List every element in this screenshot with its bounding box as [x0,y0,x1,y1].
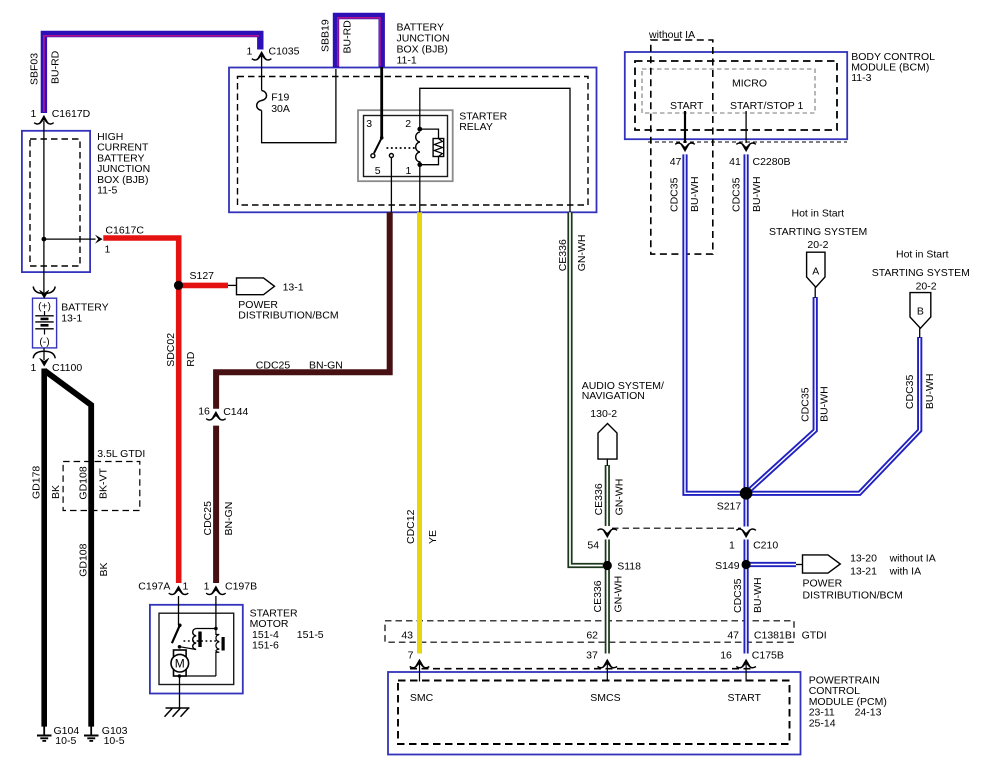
svg-text:BU-WH: BU-WH [689,176,701,212]
connector A STARTING SYSTEM [807,252,825,287]
svg-text:BU-WH: BU-WH [752,577,764,613]
svg-text:STARTING SYSTEM: STARTING SYSTEM [872,267,970,279]
svg-text:GTDI: GTDI [802,630,827,642]
svg-text:START: START [728,692,762,704]
connector C210 arrow [736,529,756,537]
svg-text:BK: BK [50,485,62,499]
svg-text:DISTRIBUTION/BCM: DISTRIBUTION/BCM [803,590,903,602]
wire pin7 arrow lead into PCM [419,664,421,682]
wire CDC12 YE from relay coil to PCM pin 7 [417,212,422,653]
svg-text:CE336: CE336 [557,239,569,271]
wire relay pin 1 to BJB bottom (to CDC12) [419,165,421,213]
connector C1617D [34,116,54,124]
svg-text:without IA: without IA [648,29,695,41]
svg-text:C197A: C197A [138,581,170,593]
svg-text:CE336: CE336 [593,483,605,515]
svg-text:13-1: 13-1 [283,282,304,294]
connector battery positive [33,287,55,299]
svg-text:CDC25: CDC25 [256,360,291,372]
relay coil [416,127,423,167]
svg-text:GD108: GD108 [77,466,89,499]
relay mechanical dotted link [387,147,416,149]
starter motor dotted link [184,640,220,642]
powertrain control module box [388,672,801,755]
wire C197B lead into starter motor [215,596,217,629]
svg-text:BU-WH: BU-WH [819,386,831,422]
svg-text:GN-WH: GN-WH [576,235,588,272]
svg-text:Hot in Start: Hot in Start [896,249,949,261]
svg-text:BU-RD: BU-RD [342,20,354,54]
svg-text:13-20: 13-20 [850,552,877,564]
node junction in HCBJB [42,237,47,242]
wire C197A lead into starter motor [178,596,180,625]
wire C1617C SDC02 RD from HCBJB to C197A [103,238,178,583]
GTDI option dashed band C1381B [385,621,794,642]
wire pin37 arrow lead into PCM [606,664,608,682]
svg-text:54: 54 [587,539,599,551]
relay pin 5 terminal [389,154,393,158]
svg-text:STARTING SYSTEM: STARTING SYSTEM [769,226,867,238]
splice S118 [603,561,612,570]
wire relay pin 5 to BJB bottom [390,158,392,213]
ground G104 [37,726,52,741]
svg-text:CDC35: CDC35 [904,375,916,410]
svg-text:10-5: 10-5 [55,735,76,747]
3.5L GTDI option dashed box [63,462,140,511]
starter pull-in coil [193,629,202,650]
svg-text:3: 3 [366,118,372,130]
svg-text:BU-RD: BU-RD [50,50,62,84]
svg-text:SBB19: SBB19 [320,19,332,52]
svg-text:1: 1 [31,108,37,120]
dashed option line below BCM (with IA) [648,141,847,143]
svg-text:S118: S118 [617,560,641,572]
svg-text:C1617C: C1617C [105,225,144,237]
svg-text:SMCS: SMCS [590,692,620,704]
svg-text:1: 1 [247,46,253,58]
svg-text:47: 47 [727,630,739,642]
svg-text:151-6: 151-6 [252,640,279,652]
svg-text:1: 1 [30,362,36,374]
connector C144 [206,412,226,420]
svg-text:(+): (+) [38,302,51,313]
svg-text:CE336: CE336 [592,580,604,612]
connector C197A [169,586,189,594]
svg-text:C1035: C1035 [269,46,300,58]
connector to power distribution 13-1 (S127) [237,278,275,295]
svg-text:11-5: 11-5 [97,185,117,197]
wire SBB19 BU-RD hook on top of BJB [336,16,382,68]
svg-text:41: 41 [729,156,741,168]
wire motor to chassis ground [179,676,181,708]
svg-text:SDC02: SDC02 [165,333,177,367]
svg-text:BN-GN: BN-GN [223,502,235,536]
svg-text:A: A [812,266,819,278]
connector C2280B pin 47 arrow [675,143,695,151]
svg-text:13-21: 13-21 [850,565,877,577]
svg-text:S127: S127 [190,270,215,282]
battery junction box outline 11-1 [229,68,597,213]
wire pin16 arrow lead into PCM [745,664,747,682]
wire CE336 GN-WH from audio connector to S118 [605,465,610,566]
svg-text:YE: YE [427,530,439,544]
svg-text:11-3: 11-3 [851,72,871,84]
starter motor switch [172,624,182,649]
svg-text:CDC25: CDC25 [202,501,214,536]
connector AUDIO SYSTEM/NAVIGATION 130-2 [598,424,617,460]
wire BCM START/STOP 1 pin lead [745,111,747,143]
svg-text:C1100: C1100 [52,362,82,374]
wire pull-in coil to motor terminal [180,647,196,650]
svg-text:M: M [175,657,185,671]
starter motor bottom rail [180,675,216,677]
splice S127 [174,281,183,290]
ground G103 [84,726,99,741]
chassis ground symbol [165,708,190,717]
wire stub S149 to power distribution connector [750,562,803,567]
fuse F19 element [257,91,267,111]
svg-text:(-): (-) [39,337,49,348]
svg-text:BU-WH: BU-WH [924,374,936,410]
starter solenoid top rail [196,628,216,630]
wire relay pin 2 riser and top link to CE336 exit [420,88,570,212]
svg-text:130-2: 130-2 [590,408,617,420]
svg-text:151-5: 151-5 [297,629,324,641]
svg-text:5: 5 [375,165,381,177]
relay resistor [420,129,444,165]
svg-text:7: 7 [408,649,414,661]
starter motor box [150,605,243,694]
relay switch arm [371,136,384,158]
motor M [171,650,189,678]
wire BCM START pin lead [684,111,686,143]
svg-text:MOTOR: MOTOR [250,618,289,630]
splice S149 [742,560,751,569]
svg-text:BK-VT: BK-VT [98,467,110,499]
svg-text:24-13: 24-13 [855,707,882,719]
svg-text:C2280B: C2280B [753,156,791,168]
svg-text:GD178: GD178 [31,466,43,499]
dashed option line at C210/S118 level [612,527,741,529]
svg-text:10-5: 10-5 [104,735,125,747]
wire CDC35 BU-WH C210 to S149 to PCM pin 16 [743,540,748,654]
wire C1617D lead through HCBJB to battery [43,121,45,293]
svg-text:3.5L GTDI: 3.5L GTDI [97,448,145,460]
svg-text:GD108: GD108 [78,543,90,576]
wire SBF03 BU-RD from C1617D to C1035 [44,34,260,113]
body control module box 11-3 [625,52,847,139]
svg-text:SBF03: SBF03 [28,53,40,85]
C175B dashed connector line above PCM [410,668,754,670]
battery box 13-1 [33,298,57,348]
wire stub S127 to power distribution [180,283,228,289]
svg-text:62: 62 [586,630,598,642]
svg-text:POWER: POWER [803,578,843,590]
connector battery negative / C1100 [33,348,55,366]
without IA option dashed box [651,40,713,254]
svg-text:2: 2 [405,118,411,130]
svg-text:11-1: 11-1 [397,54,417,66]
svg-text:C144: C144 [223,406,248,418]
svg-text:C1617D: C1617D [52,108,91,120]
svg-text:43: 43 [401,630,413,642]
svg-text:GN-WH: GN-WH [613,479,625,516]
svg-text:CDC12: CDC12 [405,509,417,544]
svg-text:1: 1 [204,581,210,593]
svg-text:S149: S149 [715,560,740,572]
connector C1035 [252,52,272,60]
svg-text:C1381B: C1381B [754,630,792,642]
svg-text:30A: 30A [271,103,290,115]
svg-text:16: 16 [198,406,210,418]
wire C1035 lead to fuse F19 [261,56,263,91]
svg-text:1: 1 [406,165,412,177]
svg-text:25-14: 25-14 [809,717,836,729]
svg-text:1: 1 [729,539,735,551]
svg-text:47: 47 [670,156,682,168]
wire CDC35 BU-WH pin 47 BCM to S217 [685,154,746,493]
svg-text:1: 1 [183,581,189,593]
svg-text:START: START [670,100,704,112]
svg-text:Hot in Start: Hot in Start [792,207,845,219]
svg-text:CDC35: CDC35 [730,177,742,212]
svg-text:START/STOP 1: START/STOP 1 [730,100,803,112]
wire junction to C1617C arrow [44,238,96,240]
connector C175B pin 16 arrow [736,659,756,667]
svg-text:20-2: 20-2 [807,239,828,251]
connector C175B pin 37 arrow [598,659,618,667]
connector C2280B pin 41 arrow [736,143,756,151]
wire CDC25 BN-GN from BJB to C144 [216,212,390,408]
svg-text:1: 1 [105,244,111,256]
wire connector B lead [919,328,921,338]
svg-text:C210: C210 [753,539,778,551]
svg-text:CDC35: CDC35 [732,578,744,613]
connector to power distribution 13-20/13-21 (S149) [803,555,841,573]
connector C175B pin 7 arrow [410,659,430,667]
wire CDC35 BU-WH from connector B to S217 [746,337,920,493]
wire CDC35 BU-WH pin 41 BCM to S217 to C210 [743,154,748,526]
wire GD178 BK battery negative to G104 [41,369,47,727]
svg-text:BU-WH: BU-WH [751,176,763,212]
svg-text:with IA: with IA [889,565,922,577]
arrowhead C1617C pointing right [95,235,103,244]
battery cell symbol [35,311,53,335]
splice S217 [740,487,753,500]
wire fuse to SBB19 leg [262,69,336,143]
svg-text:RELAY: RELAY [459,121,493,133]
svg-text:without IA: without IA [889,552,936,564]
wire audio connector lead [606,459,608,466]
svg-text:C175B: C175B [752,649,784,661]
high current battery junction box outline 11-5 [22,131,90,272]
svg-text:CDC35: CDC35 [799,387,811,422]
wire CE336 GN-WH from S118 to PCM pin 37 [605,566,610,654]
connector B STARTING SYSTEM [910,293,931,329]
svg-text:CDC35: CDC35 [668,177,680,212]
svg-text:BK: BK [98,562,110,576]
wire CDC35 BU-WH from connector A to S217 [746,297,815,493]
svg-text:16: 16 [720,649,732,661]
wire connector A lead [814,287,816,298]
svg-text:S217: S217 [717,500,742,512]
svg-text:SMC: SMC [410,692,434,704]
svg-text:C197B: C197B [225,581,257,593]
svg-text:BN-GN: BN-GN [309,360,343,372]
svg-text:37: 37 [586,649,598,661]
connector audio pin 54 arrow [598,529,618,537]
wire relay pin 3 feed (from BU-RD) [380,67,383,138]
svg-text:GN-WH: GN-WH [613,576,625,613]
wire CDC25 BN-GN from C144 to C197B [213,426,219,583]
starter hold-in coil [216,629,225,677]
wire CE336 GN-WH from BJB to S118 [570,212,603,565]
starter relay outer box [358,110,453,181]
svg-text:F19: F19 [271,91,289,103]
svg-text:B: B [917,306,924,318]
svg-text:NAVIGATION: NAVIGATION [582,390,645,402]
svg-text:MICRO: MICRO [732,78,767,90]
connector C197B [206,586,226,594]
svg-text:DISTRIBUTION/BCM: DISTRIBUTION/BCM [238,310,338,322]
wire GD108 BK battery negative to G103 [44,371,91,727]
svg-text:RD: RD [185,351,197,367]
svg-text:13-1: 13-1 [61,313,82,325]
starter relay inner box [364,116,448,177]
starter solenoid node C197B [214,627,218,631]
svg-text:20-2: 20-2 [916,281,937,293]
